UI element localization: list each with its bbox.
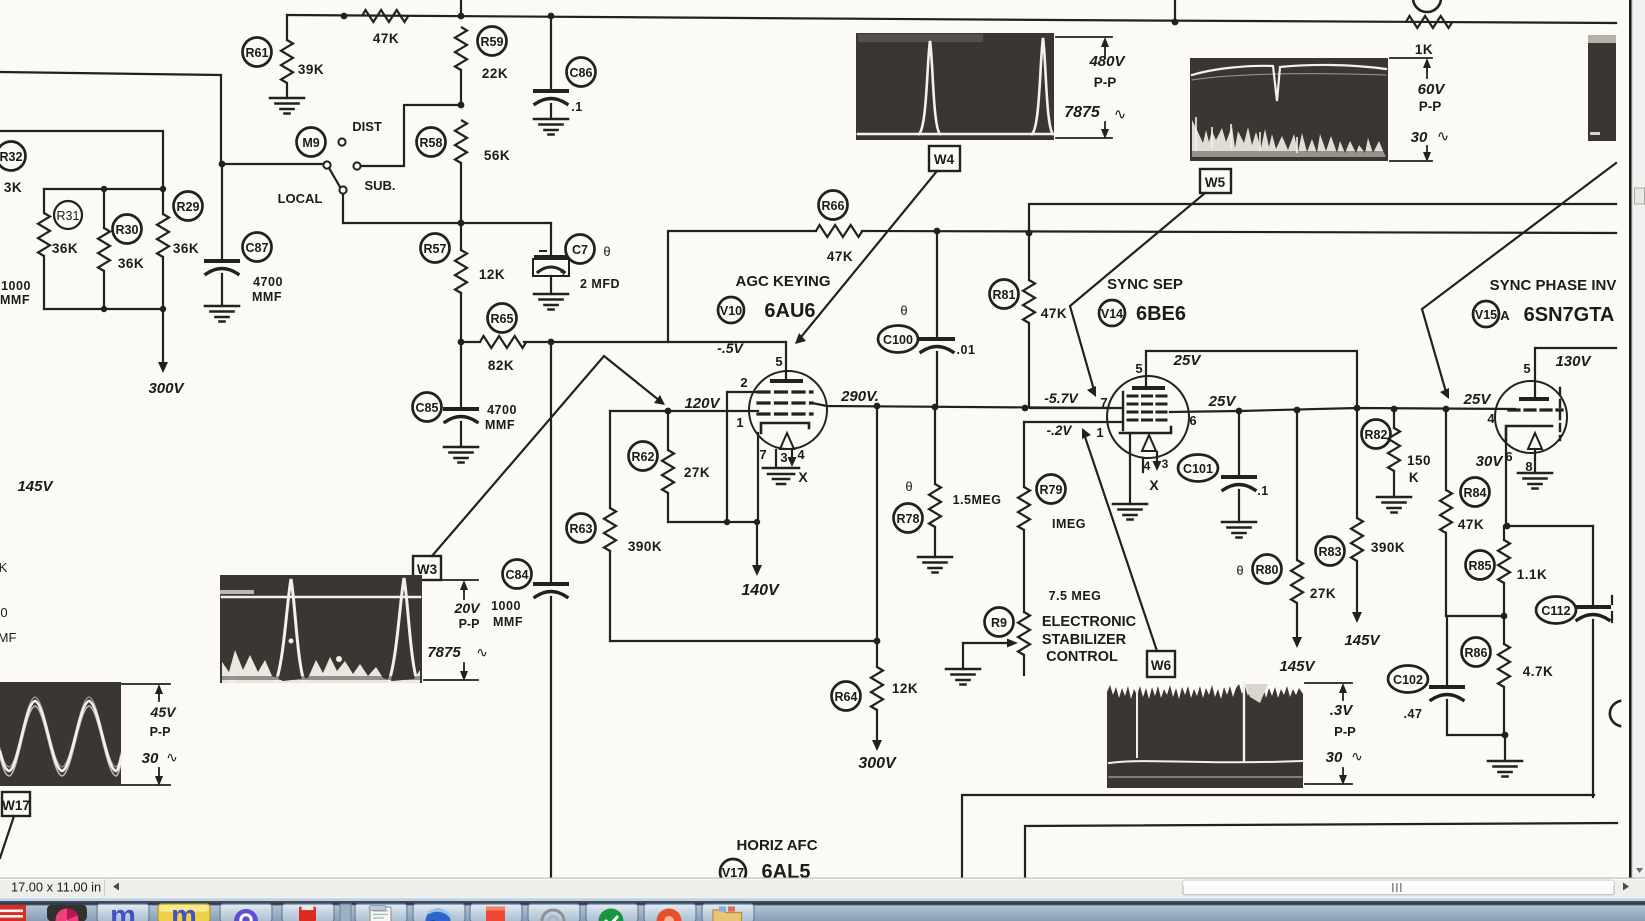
resistor R78 1.5MEG bbox=[934, 407, 936, 484]
tube V10 pin7 cathode drop bbox=[757, 433, 759, 522]
resistor R30 36K bbox=[103, 189, 105, 228]
svg-text:30: 30 bbox=[142, 750, 159, 767]
svg-text:X: X bbox=[798, 469, 808, 485]
wire bus y=223 bbox=[343, 222, 551, 224]
resistor R30 designator bbox=[113, 215, 142, 244]
svg-text:145V: 145V bbox=[1344, 632, 1381, 649]
pin number labels bbox=[736, 354, 1532, 493]
svg-text:4: 4 bbox=[1144, 459, 1151, 473]
svg-text:R57: R57 bbox=[424, 242, 447, 256]
svg-text:P-P: P-P bbox=[459, 617, 480, 631]
wire rails of R31 R30 R29 bbox=[44, 189, 163, 309]
dimension annotation W17 45V bbox=[122, 684, 178, 786]
W17 callout box bbox=[0, 792, 30, 858]
resistor 47K top bbox=[362, 10, 408, 22]
capacitor C85 4700MMF bbox=[460, 342, 462, 407]
tube V15 cathode bbox=[1506, 426, 1552, 440]
page right border bbox=[1629, 0, 1632, 878]
wire A long rail y=231 bbox=[862, 231, 1616, 233]
svg-text:2: 2 bbox=[740, 375, 747, 390]
svg-text:K: K bbox=[1409, 470, 1419, 485]
capacitor C7 2MFD electrolytic bbox=[550, 223, 552, 256]
dimension annotation W5 60V bbox=[1390, 58, 1449, 162]
svg-text:47K: 47K bbox=[827, 249, 853, 264]
svg-text:R80: R80 bbox=[1256, 563, 1279, 577]
svg-text:25V: 25V bbox=[1173, 352, 1203, 369]
wire to switch common bbox=[222, 163, 323, 165]
tube V14 cathode drop to ground bbox=[1129, 433, 1131, 504]
svg-text:27K: 27K bbox=[684, 465, 710, 480]
svg-text:130V: 130V bbox=[1555, 353, 1592, 370]
ground under C86 bbox=[534, 119, 568, 135]
waveform photo W4 bbox=[856, 33, 1054, 140]
waveform photo W6 bbox=[1107, 682, 1303, 788]
svg-text:-.2V: -.2V bbox=[1047, 423, 1073, 438]
capacitor C87 4700MMF bbox=[221, 164, 223, 259]
svg-text:V10: V10 bbox=[720, 304, 742, 318]
svg-text:AGC KEYING: AGC KEYING bbox=[735, 273, 830, 290]
svg-text:θ: θ bbox=[900, 303, 907, 318]
ground under C7 bbox=[534, 294, 568, 310]
tube V10 pin5 lead bbox=[785, 342, 787, 381]
ground under C87 bbox=[205, 306, 239, 322]
taskbar icon red partial bbox=[0, 905, 26, 921]
tube V10 grid dashes bbox=[758, 392, 812, 414]
resistor R64 12K bbox=[876, 406, 878, 667]
resistor R66 47K bbox=[668, 231, 816, 342]
taskbar button orange circle bbox=[644, 904, 696, 921]
svg-text:W5: W5 bbox=[1205, 175, 1226, 190]
status bar bbox=[0, 878, 1645, 897]
svg-text:2 MFD: 2 MFD bbox=[580, 277, 620, 291]
wire cathode rail to C112 bbox=[1504, 525, 1593, 527]
tube V14 pin7 wire bbox=[1030, 407, 1123, 409]
svg-text:R31: R31 bbox=[57, 209, 80, 223]
tube V10 plate bar bbox=[772, 379, 801, 383]
svg-text:7875: 7875 bbox=[427, 644, 461, 661]
resistor R62 27K bbox=[667, 411, 669, 450]
tube V14 pin5 lead and 25V wire bbox=[1146, 351, 1357, 408]
W5 callout box bbox=[1070, 169, 1231, 397]
svg-text:R66: R66 bbox=[822, 199, 845, 213]
svg-text:45V: 45V bbox=[150, 704, 178, 720]
svg-text:ELECTRONIC: ELECTRONIC bbox=[1042, 614, 1137, 630]
svg-text:56K: 56K bbox=[484, 148, 510, 163]
svg-text:480V: 480V bbox=[1088, 53, 1126, 70]
dimension annotation W3 20V bbox=[424, 580, 488, 681]
svg-text:SUB.: SUB. bbox=[364, 178, 395, 193]
resistor R80 27K bbox=[1296, 410, 1298, 560]
svg-text:6: 6 bbox=[1505, 449, 1512, 464]
tube V10 heater stubs and arrow bbox=[776, 450, 792, 466]
resistor R29 designator bbox=[174, 192, 203, 221]
wire stub from top edge at x=463 bbox=[460, 0, 462, 16]
tube V15 pin5 lead and 130V wire bbox=[1535, 348, 1616, 399]
svg-text:V14: V14 bbox=[1101, 307, 1123, 321]
horizontal scrollbar thumb bbox=[1183, 880, 1614, 894]
wire 290V plate wire bbox=[812, 403, 1110, 408]
transistor... tube designator R41 partial circle top bbox=[1413, 0, 1441, 12]
wire cathode rail y=522 bbox=[668, 521, 757, 523]
ground under R78 bbox=[918, 557, 952, 573]
tube V15 pin8 lead to ground bbox=[1534, 449, 1536, 473]
capacitor C112 side dashes bbox=[1611, 596, 1613, 622]
vertical scrollbar track bbox=[1632, 0, 1645, 878]
resistor R84 47K bbox=[1445, 409, 1447, 490]
switch M9 contacts and blade bbox=[338, 138, 345, 145]
resistor R63 390K bbox=[609, 411, 611, 508]
wire screen 25V wire of V14 bbox=[1170, 408, 1515, 412]
svg-text:36K: 36K bbox=[52, 241, 78, 256]
svg-text:390K: 390K bbox=[628, 539, 662, 554]
wire bottom-left frame wire bbox=[962, 795, 1594, 878]
svg-text:7.5 MEG: 7.5 MEG bbox=[1049, 589, 1102, 603]
capacitor C112 designator bbox=[1536, 597, 1576, 624]
svg-text:6AU6: 6AU6 bbox=[764, 300, 815, 322]
resistor R61 designator bbox=[243, 38, 272, 67]
waveform photo W3 bbox=[220, 575, 422, 683]
partial texts at left edge bbox=[0, 560, 16, 645]
ground under R82 bbox=[1377, 497, 1411, 513]
svg-text:36K: 36K bbox=[118, 256, 144, 271]
svg-text:MMF: MMF bbox=[493, 615, 523, 629]
resistor R32 designator bbox=[0, 142, 26, 171]
wire top horizontal rail bbox=[287, 15, 1616, 23]
svg-text:R86: R86 bbox=[1465, 646, 1488, 660]
tube V15 dashed half marker bbox=[1559, 388, 1561, 440]
resistor R63 designator bbox=[567, 514, 596, 543]
node junction at 463,105 bbox=[458, 102, 465, 109]
svg-text:IMEG: IMEG bbox=[1052, 517, 1086, 531]
tube V10 beam arrow bbox=[780, 433, 794, 449]
svg-text:W17: W17 bbox=[2, 798, 30, 813]
resistor R81 47K bbox=[1028, 233, 1030, 280]
wire C102 to junction bbox=[1447, 734, 1505, 736]
taskbar separator bbox=[340, 904, 351, 921]
svg-text:1: 1 bbox=[736, 415, 743, 430]
W4 callout box bbox=[795, 146, 960, 344]
taskbar button grey rings bbox=[528, 904, 580, 921]
svg-text:R59: R59 bbox=[481, 35, 504, 49]
svg-text:290V.: 290V. bbox=[840, 388, 879, 405]
resistor R79 designator bbox=[1037, 475, 1066, 504]
capacitor partial at right edge bbox=[1610, 701, 1620, 726]
svg-text:MMF: MMF bbox=[485, 418, 515, 432]
svg-text:R62: R62 bbox=[632, 450, 655, 464]
tube V15 6SN7GTA sync phase inv bbox=[1495, 381, 1567, 453]
svg-text:7: 7 bbox=[1100, 395, 1107, 410]
dimension annotation W6 .3V bbox=[1305, 683, 1363, 785]
waveform photo W17 bbox=[0, 682, 121, 786]
wire left horizontal y=131 bbox=[0, 131, 163, 189]
taskbar button notepad bbox=[355, 904, 407, 921]
tube V14 6BE6 sync sep bbox=[1107, 376, 1189, 458]
pointer to sync phase inv grid bbox=[1422, 163, 1616, 392]
svg-text:3: 3 bbox=[780, 450, 787, 465]
svg-text:1.5MEG: 1.5MEG bbox=[953, 493, 1002, 507]
svg-text:6SN7GTA: 6SN7GTA bbox=[1524, 304, 1615, 326]
resistor R85 designator bbox=[1466, 551, 1495, 580]
svg-text:C85: C85 bbox=[416, 401, 439, 415]
pot R9 wiper arrow bbox=[963, 642, 1010, 644]
potentiometer R9 7.5MEG bbox=[1018, 612, 1030, 655]
ground under R86 bbox=[1488, 761, 1522, 777]
tube V14 left bracket bbox=[1122, 392, 1124, 430]
svg-text:120V: 120V bbox=[684, 395, 721, 412]
wire B long rail y=204 bbox=[1029, 204, 1616, 233]
resistor R31 36K bbox=[43, 189, 45, 213]
svg-text:8: 8 bbox=[1525, 459, 1532, 474]
capacitor C101 designator bbox=[1178, 455, 1218, 482]
ground X under V14 bbox=[1113, 504, 1147, 520]
capacitor C100 designator bbox=[878, 326, 918, 353]
tube V14 beam arrow bbox=[1142, 435, 1156, 451]
svg-text:W6: W6 bbox=[1151, 658, 1172, 673]
capacitor C102 designator bbox=[1388, 666, 1428, 693]
svg-text:∿: ∿ bbox=[1437, 128, 1450, 145]
dimension annotation W4 480V bbox=[1056, 37, 1127, 139]
ground under R61 bbox=[270, 98, 304, 114]
svg-text:A: A bbox=[1500, 308, 1510, 323]
svg-text:V15: V15 bbox=[1475, 308, 1497, 322]
svg-text:47K: 47K bbox=[373, 31, 399, 46]
svg-text:P-P: P-P bbox=[1334, 724, 1356, 739]
W3 callout box bbox=[413, 356, 665, 580]
svg-text:C101: C101 bbox=[1183, 462, 1213, 476]
svg-text:.1: .1 bbox=[571, 100, 582, 114]
W6 pointer bbox=[1084, 434, 1157, 651]
svg-text:4700: 4700 bbox=[253, 275, 283, 289]
capacitor C85 designator bbox=[413, 393, 442, 422]
svg-text:36K: 36K bbox=[173, 241, 199, 256]
resistor R59 designator bbox=[478, 27, 507, 56]
svg-text:6BE6: 6BE6 bbox=[1136, 303, 1186, 325]
wire jog from R59 to SUB contact bbox=[362, 105, 461, 166]
resistor R61 39K bbox=[286, 15, 288, 40]
svg-text:DIST: DIST bbox=[352, 119, 382, 134]
taskbar bbox=[0, 897, 1645, 921]
svg-text:12K: 12K bbox=[479, 267, 505, 282]
wire inner bottom frame wire bbox=[1025, 823, 1617, 878]
svg-text:0: 0 bbox=[0, 605, 7, 620]
resistor R86 4.7K bbox=[1503, 616, 1505, 644]
tube V14 cathode bbox=[1120, 427, 1171, 433]
svg-text:82K: 82K bbox=[488, 358, 514, 373]
taskbar button folder bbox=[702, 904, 754, 921]
svg-text:R85: R85 bbox=[1469, 559, 1492, 573]
svg-text:1.1K: 1.1K bbox=[1517, 567, 1548, 582]
tube V14 designator bbox=[1099, 300, 1125, 326]
svg-text:25V: 25V bbox=[1208, 393, 1238, 410]
svg-text:MF: MF bbox=[0, 630, 16, 645]
capacitor C84 designator bbox=[503, 560, 532, 589]
svg-text:MMF: MMF bbox=[0, 293, 30, 307]
tube V10 designator bbox=[718, 297, 744, 323]
svg-text:W4: W4 bbox=[934, 152, 955, 167]
switch labels bbox=[278, 119, 396, 206]
W5 pointer bbox=[1070, 193, 1205, 390]
resistor R29 36K bbox=[162, 189, 164, 214]
vertical scrollbar bottom arrow bbox=[1636, 868, 1643, 873]
svg-text:K: K bbox=[0, 560, 8, 575]
resistor R65 designator bbox=[488, 304, 517, 333]
svg-text:C87: C87 bbox=[246, 241, 269, 255]
tube V14 plate bar bbox=[1134, 386, 1163, 390]
taskbar button red square bbox=[470, 904, 522, 921]
resistor R83 designator bbox=[1316, 537, 1345, 566]
svg-text:R58: R58 bbox=[420, 136, 443, 150]
taskbar button green circle bbox=[586, 904, 638, 921]
svg-text:m: m bbox=[171, 900, 197, 921]
svg-text:30V: 30V bbox=[1476, 453, 1505, 470]
resistor R65 82K bbox=[480, 336, 526, 348]
wire stub from top edge at x=1175 bbox=[1174, 0, 1176, 22]
svg-text:P-P: P-P bbox=[1419, 99, 1442, 114]
svg-text:R30: R30 bbox=[116, 223, 139, 237]
wire 120V grid wire bbox=[610, 410, 758, 412]
svg-text:C100: C100 bbox=[883, 333, 913, 347]
svg-text:R29: R29 bbox=[177, 200, 200, 214]
resistor R66 designator bbox=[819, 191, 848, 220]
svg-text:1000: 1000 bbox=[491, 599, 521, 613]
svg-text:W3: W3 bbox=[417, 562, 438, 577]
capacitor C87 designator bbox=[243, 233, 272, 262]
svg-text:140V: 140V bbox=[741, 582, 780, 599]
resistor R57 designator bbox=[421, 234, 450, 263]
capacitor C100 .01 bbox=[936, 231, 938, 337]
capacitor C112 bbox=[1592, 526, 1594, 605]
svg-text:R83: R83 bbox=[1319, 545, 1342, 559]
taskbar button purple circle bbox=[220, 904, 272, 921]
taskbar button red book bbox=[282, 904, 334, 921]
resistor R58 56K bbox=[455, 120, 467, 163]
theta marks bbox=[603, 244, 1510, 578]
multi-part value labels bbox=[0, 100, 1422, 721]
wire screen rail y=342 bbox=[461, 341, 786, 343]
svg-text:7: 7 bbox=[759, 447, 766, 462]
tube V10 pin2 lead to lower rail bbox=[727, 392, 758, 522]
ground X under V10 bbox=[763, 468, 799, 484]
resistor 1K top right bbox=[1406, 16, 1452, 28]
svg-text:6: 6 bbox=[1189, 413, 1196, 428]
svg-text:5: 5 bbox=[1135, 361, 1142, 376]
svg-text:145V: 145V bbox=[1279, 658, 1316, 675]
svg-text:R61: R61 bbox=[246, 46, 269, 60]
capacitor C84 1000MMF line bbox=[550, 342, 552, 582]
svg-text:C112: C112 bbox=[1541, 604, 1570, 618]
svg-text:+: + bbox=[560, 267, 566, 279]
svg-text:150: 150 bbox=[1407, 453, 1431, 468]
svg-text:.47: .47 bbox=[1404, 707, 1423, 721]
svg-text:R63: R63 bbox=[570, 522, 593, 536]
svg-text:M9: M9 bbox=[302, 136, 319, 150]
svg-text:4: 4 bbox=[797, 447, 805, 462]
wire bottom loop rail y=641 bbox=[610, 640, 877, 642]
resistor R79 1MEG bbox=[1023, 422, 1025, 487]
tube V15 grid dashes bbox=[1509, 408, 1562, 411]
tube V15 designator bbox=[1473, 301, 1499, 327]
svg-text:θ: θ bbox=[603, 244, 610, 259]
resistor R86 designator bbox=[1462, 638, 1491, 667]
svg-text:SYNC SEP: SYNC SEP bbox=[1107, 276, 1183, 293]
svg-text:P-P: P-P bbox=[150, 725, 171, 739]
capacitor C102 .47 bbox=[1446, 616, 1448, 685]
svg-text:∿: ∿ bbox=[476, 644, 488, 660]
svg-text:SYNC PHASE INV: SYNC PHASE INV bbox=[1490, 277, 1617, 294]
ground under V15 pin8 bbox=[1518, 473, 1552, 489]
tube V14 grid dashes bbox=[1128, 396, 1170, 420]
svg-text:4.7K: 4.7K bbox=[1523, 664, 1554, 679]
svg-text:R32: R32 bbox=[0, 150, 23, 164]
capacitor C7 designator bbox=[566, 235, 595, 264]
tube V15 beam arrow bbox=[1528, 433, 1542, 449]
horizontal scrollbar right arrow bbox=[1623, 883, 1629, 891]
svg-text:390K: 390K bbox=[1371, 540, 1405, 555]
svg-text:R78: R78 bbox=[897, 512, 920, 526]
svg-text:R82: R82 bbox=[1365, 428, 1388, 442]
resistor R58 designator bbox=[417, 128, 446, 157]
wire junction to ground bbox=[1504, 735, 1506, 761]
svg-text:4700: 4700 bbox=[487, 403, 517, 417]
svg-text:R84: R84 bbox=[1464, 486, 1487, 500]
resistor R82 designator bbox=[1362, 420, 1391, 449]
taskbar button m blue bbox=[97, 904, 149, 921]
section titles bbox=[735, 273, 1616, 854]
svg-text:CONTROL: CONTROL bbox=[1046, 649, 1118, 665]
wire from LOCAL contact to bus bbox=[342, 194, 344, 223]
svg-text:3K: 3K bbox=[4, 180, 22, 195]
W6 callout box bbox=[1082, 428, 1175, 677]
resistor R82 150K bbox=[1393, 409, 1395, 428]
svg-text:25V: 25V bbox=[1463, 391, 1493, 408]
svg-text:5: 5 bbox=[1523, 361, 1530, 376]
W3 pointer bbox=[432, 356, 660, 556]
svg-text:-.5V: -.5V bbox=[717, 340, 744, 356]
resistor R80 designator bbox=[1253, 555, 1282, 584]
svg-text:X: X bbox=[1149, 477, 1159, 493]
svg-text:20V: 20V bbox=[454, 600, 482, 616]
svg-text:.3V: .3V bbox=[1330, 702, 1355, 719]
taskbar button m yellow bbox=[158, 904, 210, 921]
svg-text:27K: 27K bbox=[1310, 586, 1336, 601]
resistor R64 designator bbox=[832, 682, 861, 711]
vertical scrollbar thumb bbox=[1635, 188, 1645, 204]
W4 pointer bbox=[797, 171, 937, 342]
wire grid1 wire of V14 bbox=[1024, 421, 1123, 423]
svg-text:R64: R64 bbox=[835, 690, 858, 704]
tube V10 cathode bbox=[761, 423, 809, 433]
svg-text:STABILIZER: STABILIZER bbox=[1042, 632, 1127, 648]
svg-text:12K: 12K bbox=[892, 681, 918, 696]
tube V15 plate bar bbox=[1521, 397, 1547, 401]
node junction at 463,223 bbox=[458, 220, 465, 227]
node top rail junctions bbox=[341, 13, 1179, 26]
W17 pointer bbox=[0, 816, 14, 858]
taskbar button blue globe bbox=[413, 904, 465, 921]
svg-text:5: 5 bbox=[775, 354, 782, 369]
svg-text:R65: R65 bbox=[491, 312, 514, 326]
waveform photo W5 bbox=[1190, 58, 1388, 161]
capacitor C86 designator bbox=[567, 58, 596, 87]
svg-text:4: 4 bbox=[1487, 411, 1495, 426]
switch M9 designator bbox=[297, 128, 326, 157]
svg-text:R79: R79 bbox=[1040, 483, 1063, 497]
svg-text:30: 30 bbox=[1326, 749, 1343, 766]
svg-text:47K: 47K bbox=[1458, 517, 1484, 532]
svg-text:-5.7V: -5.7V bbox=[1044, 390, 1079, 406]
svg-text:P-P: P-P bbox=[1094, 75, 1117, 90]
value labels bbox=[4, 31, 1553, 696]
